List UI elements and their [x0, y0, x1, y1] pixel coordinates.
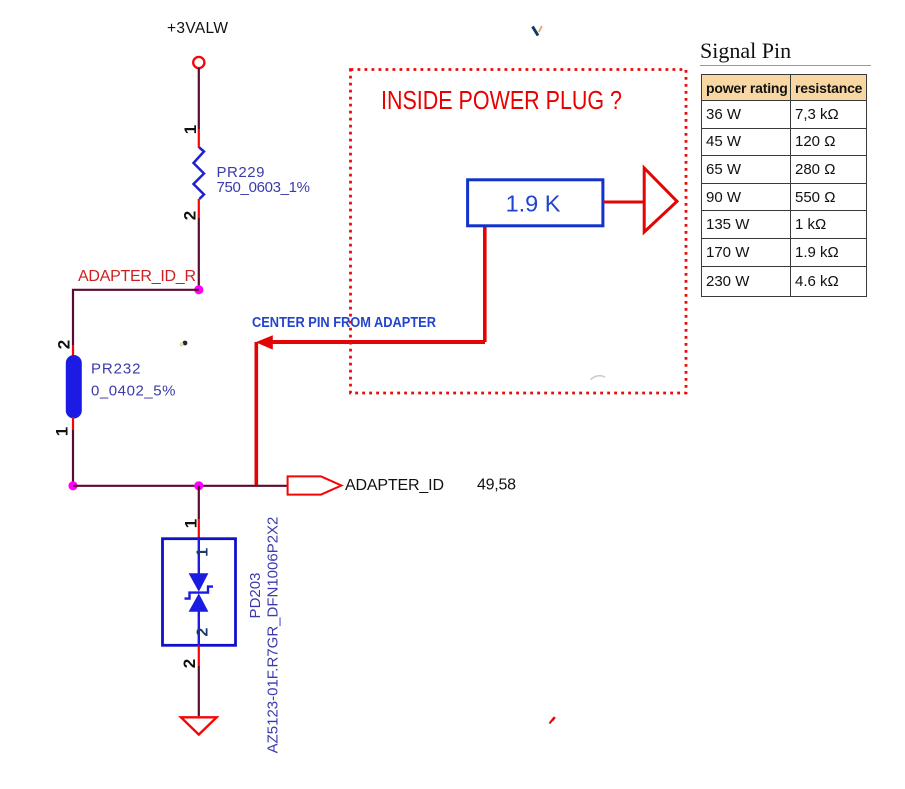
ground symbol — [181, 717, 217, 734]
value AZ5123-01F.R7GR_DFN1006P2X2 (rotated) — [265, 517, 282, 754]
stray gray smudge — [591, 376, 606, 380]
pin number 1 of PD203 — [182, 519, 201, 528]
value 1.9 K — [506, 191, 561, 217]
TVS diode symbol upper triangle — [189, 573, 209, 592]
svg-text:PD203: PD203 — [247, 573, 264, 619]
junction node ADAPTER_ID_R — [194, 285, 203, 294]
wire ADAPTER_ID horizontal — [73, 485, 288, 487]
title underline — [700, 65, 871, 66]
svg-text:750_0603_1%: 750_0603_1% — [217, 179, 311, 196]
red wire horizontal from 1.9K to arrow — [268, 340, 485, 344]
svg-text:49,58: 49,58 — [477, 477, 516, 494]
svg-text:CENTER PIN FROM ADAPTER: CENTER PIN FROM ADAPTER — [252, 315, 436, 331]
port connector ADAPTER_ID — [288, 476, 342, 494]
value 0_0402_5% — [91, 383, 176, 400]
port name ADAPTER_ID — [345, 477, 444, 494]
wire PR229 pin 2 to node ADAPTER_ID_R — [198, 218, 200, 290]
wire PD203 pin 2 to ground — [198, 666, 200, 716]
table title Signal Pin — [700, 38, 791, 64]
pin number 1 of PR232 — [53, 427, 72, 436]
pin 1 stub PR232 — [72, 417, 74, 430]
stray red mark bottom — [550, 717, 557, 724]
wire node ADAPTER_ID_R to PR232 pin 2 — [73, 290, 199, 345]
svg-text:2: 2 — [55, 340, 74, 349]
svg-text:ADAPTER_ID: ADAPTER_ID — [345, 477, 444, 494]
pin number 2 of PR229 — [181, 211, 200, 220]
svg-text:0_0402_5%: 0_0402_5% — [91, 383, 176, 400]
wire node ADAPTER_ID to PD203 pin 1 — [198, 486, 200, 519]
net label ADAPTER_ID_R — [78, 268, 196, 285]
designator PR232 — [91, 361, 141, 378]
resistor R symbol PR229 zigzag — [194, 148, 205, 200]
svg-text:1: 1 — [181, 125, 200, 134]
svg-text:2: 2 — [181, 211, 200, 220]
wire +3VALW to PR229 pin 1 — [198, 68, 200, 129]
label CENTER PIN FROM ADAPTER — [252, 315, 436, 331]
resistor PR232 body (zero ohm capsule) — [66, 356, 81, 419]
pin 1 stub PR229 — [198, 129, 200, 148]
table Signal Pin — [701, 74, 867, 297]
designator PR229 — [217, 164, 265, 181]
PD203 internal pin number 2 — [195, 627, 212, 636]
dotted annotation box INSIDE POWER PLUG — [351, 70, 687, 394]
svg-text:AZ5123-01F.R7GR_DFN1006P2X2: AZ5123-01F.R7GR_DFN1006P2X2 — [265, 517, 282, 754]
power net +3VALW label — [167, 20, 228, 37]
arrowhead center pin — [256, 335, 273, 349]
svg-text:1: 1 — [53, 427, 72, 436]
stray mark v at top — [533, 26, 543, 36]
power terminal circle +3VALW — [193, 57, 204, 68]
designator PD203 (rotated) — [247, 573, 264, 619]
resistor box 1.9 K — [468, 180, 603, 226]
svg-text:INSIDE POWER PLUG ?: INSIDE POWER PLUG ? — [381, 85, 622, 115]
svg-text:PR232: PR232 — [91, 361, 141, 378]
wire PR232 pin 1 to bottom node — [72, 430, 74, 486]
pin number 1 of PR229 — [181, 125, 200, 134]
junction node below PR232 — [68, 481, 77, 490]
junction node ADAPTER_ID — [194, 481, 203, 490]
PD203 internal pin number 1 — [195, 548, 212, 557]
TVS diode symbol lower triangle — [189, 593, 209, 611]
red link 1.9K box to plug tip triangle — [603, 201, 643, 204]
svg-text:1: 1 — [195, 548, 212, 557]
pin 2 stub PR232 — [72, 345, 74, 357]
sheet reference 49,58 — [477, 477, 516, 494]
red wire vertical from center pin arrow to ADAPTER_ID net — [254, 342, 258, 485]
pin 1 stub PD203 — [198, 519, 200, 539]
value 750_0603_1% — [217, 179, 311, 196]
svg-text:2: 2 — [180, 659, 199, 668]
PD203 internal lead pin 2 — [198, 611, 200, 645]
pin 2 stub PR229 — [198, 199, 200, 218]
pin number 2 of PD203 — [180, 659, 199, 668]
stray dark dot — [180, 341, 188, 347]
TVS diode zener bar — [185, 587, 214, 599]
annotation text INSIDE POWER PLUG ? — [381, 85, 622, 115]
plug tip triangle — [644, 168, 677, 232]
PD203 internal lead pin 1 — [198, 539, 200, 574]
svg-text:1: 1 — [182, 519, 201, 528]
red wire vertical from 1.9K box down — [483, 226, 487, 342]
svg-text:1.9 K: 1.9 K — [506, 191, 561, 217]
svg-text:ADAPTER_ID_R: ADAPTER_ID_R — [78, 268, 196, 285]
svg-text:+3VALW: +3VALW — [167, 20, 228, 37]
pin number 2 of PR232 — [55, 340, 74, 349]
diode PD203 body box — [163, 539, 236, 646]
pin 2 stub PD203 — [198, 645, 200, 666]
svg-text:2: 2 — [195, 627, 212, 636]
